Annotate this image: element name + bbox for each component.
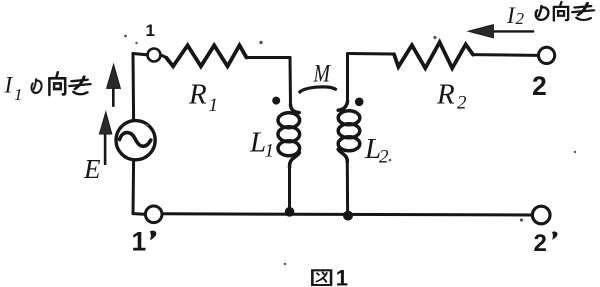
svg-text:R: R [436,78,455,110]
svg-text:1: 1 [146,21,155,40]
svg-text:1: 1 [265,140,275,161]
svg-text:2: 2 [534,230,547,257]
svg-text:2: 2 [516,9,525,28]
svg-text:1: 1 [132,226,147,256]
svg-text:2: 2 [457,93,467,114]
svg-text:1: 1 [336,266,348,287]
svg-text:M: M [313,60,331,87]
svg-text:2: 2 [379,147,389,168]
svg-text:I: I [506,3,516,28]
svg-text:1: 1 [14,85,23,104]
svg-text:I: I [4,73,14,98]
svg-text:E: E [83,154,101,184]
svg-text:2: 2 [532,71,547,101]
svg-text:1: 1 [209,95,219,116]
svg-text:R: R [188,78,207,110]
